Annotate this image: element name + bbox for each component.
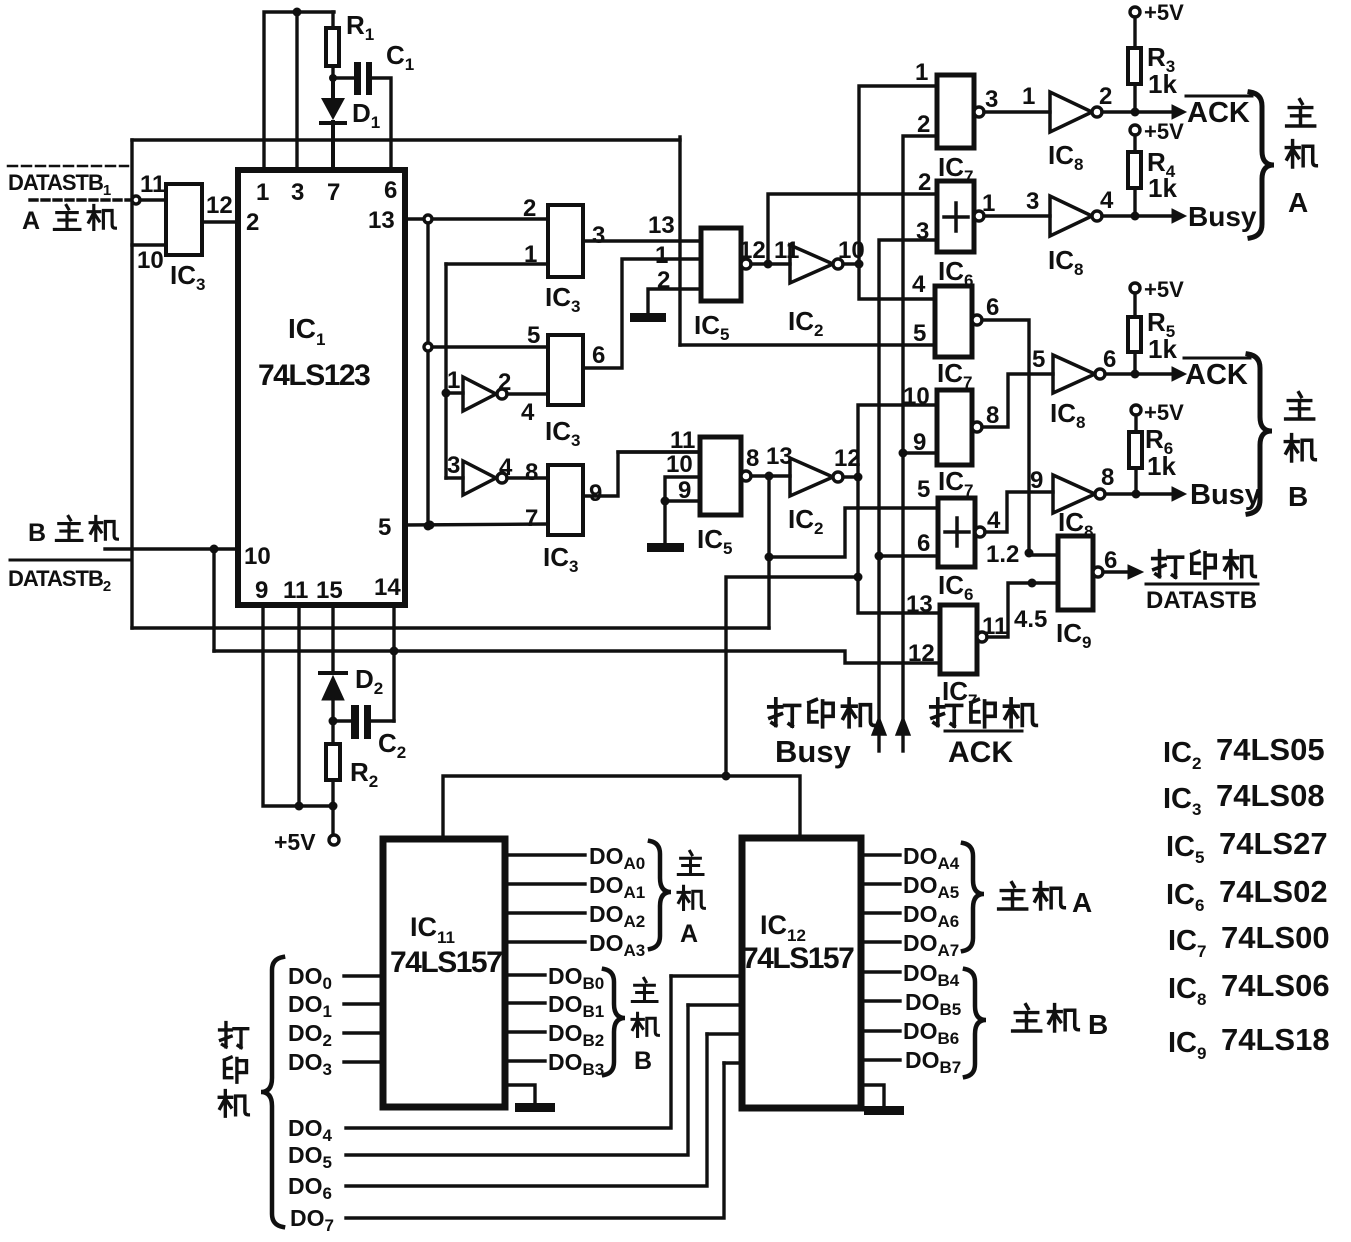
svg-text:5: 5	[913, 320, 926, 347]
svg-text:13: 13	[906, 591, 933, 618]
labels DO0-DO3	[288, 963, 332, 1079]
resistor R4 pullup	[1128, 125, 1141, 216]
wire y628 A-net long	[132, 626, 769, 629]
wire DO5 line	[346, 1005, 688, 1155]
inverter IC2 a	[790, 245, 859, 283]
svg-text:3: 3	[291, 179, 304, 206]
gate IC6 a nor	[937, 181, 1050, 252]
inverter IC8 a	[1050, 92, 1133, 132]
gate IC3 c	[548, 335, 583, 405]
pin labels IC8b	[1026, 187, 1114, 215]
label +5V R6	[1144, 400, 1184, 425]
label IC1	[288, 313, 325, 349]
inverter IC2 gate 1-2	[446, 377, 548, 411]
svg-text:2: 2	[917, 111, 930, 138]
svg-text:A: A	[1072, 887, 1092, 918]
pin labels IC1 top	[256, 177, 397, 206]
node select split	[722, 772, 731, 781]
label D1	[352, 98, 380, 132]
label IC11	[410, 912, 455, 947]
legend IC7	[1168, 920, 1330, 961]
gate IC3 strobe-A	[166, 184, 202, 255]
svg-text:11: 11	[283, 577, 308, 604]
svg-text:7: 7	[525, 505, 538, 532]
wire top +5V rail	[264, 12, 334, 170]
svg-text:5: 5	[378, 514, 391, 541]
legend IC2	[1163, 732, 1325, 773]
wire IC1 pin15 down	[331, 605, 334, 672]
pin labels IC6b	[917, 476, 1001, 557]
svg-text:2: 2	[657, 267, 670, 294]
wire IC12 outputs B4-B7	[861, 972, 900, 1060]
wire IC5a pin2 ground stub	[648, 289, 701, 313]
svg-text:1: 1	[1022, 83, 1035, 110]
label ACK A	[1186, 96, 1252, 129]
svg-text:6: 6	[917, 530, 930, 557]
node bus B select tap	[854, 573, 863, 582]
svg-text:4: 4	[499, 454, 513, 481]
wire IC11 inputs DO0-DO3	[344, 976, 383, 1062]
svg-text:74LS08: 74LS08	[1216, 778, 1325, 813]
legend IC3	[1163, 778, 1325, 819]
pin labels inverter 1-2	[447, 367, 535, 426]
label IC2 a	[788, 306, 823, 340]
svg-text:9: 9	[1030, 467, 1043, 494]
node ACK-B pullup	[1131, 370, 1140, 379]
svg-text:2: 2	[918, 169, 931, 196]
label IC8 b	[1048, 245, 1083, 279]
node IC9 pin12	[1025, 549, 1034, 558]
svg-text:74LS157: 74LS157	[390, 946, 502, 979]
svg-text:9: 9	[589, 480, 602, 507]
resistor R5 pullup	[1128, 283, 1141, 374]
pin labels IC3b	[523, 195, 605, 268]
pin 10 IC1	[244, 543, 271, 570]
label +5V R3	[1144, 0, 1184, 25]
legend IC5	[1166, 826, 1328, 867]
svg-text:1: 1	[256, 179, 269, 206]
capacitor C2	[333, 705, 394, 739]
label DATASTB2	[8, 560, 130, 595]
svg-text:11: 11	[140, 171, 165, 198]
label printer ACK mid	[931, 699, 1037, 769]
labels DOA4-A7	[903, 843, 960, 960]
label Busy B	[1190, 479, 1261, 511]
wire select line to muxes	[443, 577, 858, 839]
label 74LS157 IC12	[742, 942, 854, 975]
svg-text:B: B	[634, 1047, 652, 1075]
node Busy-B pullup	[1132, 490, 1141, 499]
op IC12 74LS157 box	[742, 838, 861, 1108]
svg-text:9: 9	[255, 577, 268, 604]
pin labels IC3c	[527, 322, 605, 369]
pin labels inverter 3-4	[447, 452, 538, 486]
diode D2	[320, 673, 346, 721]
svg-text:3: 3	[592, 222, 605, 249]
label IC8 d	[1058, 507, 1093, 541]
svg-text:12: 12	[739, 237, 766, 264]
label IC5 b	[697, 524, 732, 558]
brace host B IC12	[965, 969, 986, 1077]
op IC1 74LS123 box	[238, 170, 405, 605]
gate IC5 b 74LS27	[700, 437, 790, 515]
wire IC5b pin11 input	[618, 450, 700, 453]
wire +5V stub	[329, 806, 339, 845]
node IC2b input	[765, 472, 774, 481]
label printer Busy	[769, 699, 875, 769]
svg-text:5: 5	[527, 322, 540, 349]
arrow Busy up	[872, 717, 886, 751]
gate IC5 a 74LS27	[701, 228, 741, 301]
svg-text:11: 11	[774, 237, 799, 264]
svg-text:74LS00: 74LS00	[1221, 920, 1330, 955]
node D2 C2 R2	[329, 717, 338, 726]
svg-text:10: 10	[666, 451, 693, 478]
label IC12	[760, 910, 806, 945]
svg-text:+5V: +5V	[1144, 119, 1184, 144]
label IC6 b	[938, 570, 973, 604]
label IC8 c	[1050, 398, 1085, 432]
svg-text:4: 4	[912, 271, 926, 298]
ground IC5b	[647, 543, 684, 552]
svg-text:1: 1	[915, 59, 928, 86]
wire left vertical A-net	[130, 140, 133, 628]
ground IC5a	[630, 313, 666, 322]
labels DOB4-B7	[903, 960, 961, 1077]
svg-text:7: 7	[327, 179, 340, 206]
svg-text:1.2: 1.2	[986, 541, 1019, 568]
pin labels IC3d	[525, 480, 602, 532]
svg-text:1k: 1k	[1147, 451, 1176, 481]
svg-text:15: 15	[316, 577, 343, 604]
wire IC3b pin1 input	[446, 262, 548, 265]
node Busy pin6	[875, 552, 939, 561]
wire IC12 inputs risers	[671, 976, 742, 1063]
wire to IC6b pin5	[769, 508, 938, 557]
node IC9 pin45	[1028, 579, 1037, 588]
svg-text:8: 8	[746, 445, 759, 472]
label IC7 b	[937, 358, 972, 392]
svg-text:+5V: +5V	[1144, 400, 1184, 425]
node ACK pin9	[899, 449, 936, 458]
inverter IC8 c	[1053, 355, 1133, 393]
pin 10 IC3a	[137, 247, 164, 274]
gate IC9 nand	[1058, 536, 1103, 610]
svg-text:74LS06: 74LS06	[1221, 968, 1330, 1003]
pin 5 IC1	[378, 514, 391, 541]
gate IC5a output node	[741, 194, 937, 269]
label IC7 c	[938, 466, 973, 500]
wire IC3 pin10	[132, 243, 166, 246]
resistor R6 pullup	[1129, 405, 1142, 494]
wire IC1 pin9 down	[263, 605, 333, 806]
pin labels IC7a	[915, 59, 998, 138]
svg-text:1k: 1k	[1148, 334, 1177, 364]
svg-text:12: 12	[834, 445, 861, 472]
wire ACK bus vertical	[903, 136, 937, 720]
svg-text:8: 8	[1101, 464, 1114, 491]
pin labels IC1 bottom	[255, 574, 401, 604]
wire DO4 line	[346, 976, 671, 1128]
wire bus B strobe	[858, 405, 940, 613]
svg-text:3: 3	[916, 218, 929, 245]
svg-text:2: 2	[246, 209, 259, 236]
node pin11 +5V	[295, 802, 304, 811]
label IC3 c	[545, 416, 580, 450]
svg-text:1k: 1k	[1148, 173, 1177, 203]
label R4 value	[1147, 147, 1177, 203]
svg-text:9: 9	[913, 429, 926, 456]
node bus A	[855, 260, 864, 269]
label A-host	[22, 205, 115, 235]
label IC3 d	[543, 542, 578, 576]
svg-text:+5V: +5V	[1144, 277, 1184, 302]
wire IC1 pin11 down	[297, 605, 300, 806]
labels DOA0-A3	[589, 843, 645, 960]
label host A right	[1286, 100, 1316, 218]
pin labels IC9	[986, 541, 1117, 633]
svg-text:4: 4	[1100, 187, 1114, 214]
label IC6 a	[938, 256, 973, 290]
svg-text:6: 6	[986, 294, 999, 321]
label +5V R4	[1144, 119, 1184, 144]
pin 12 IC3a	[206, 192, 233, 219]
pin labels IC7b	[912, 271, 999, 347]
label ACK B	[1184, 358, 1250, 391]
wire y345 to IC7b pin5	[680, 343, 935, 346]
svg-text:DATASTB2: DATASTB2	[8, 566, 111, 595]
wire bus A strobe	[859, 86, 937, 299]
gate IC7 d	[940, 583, 1058, 674]
brace host A IC11	[650, 841, 671, 949]
inverter IC2 b	[790, 458, 858, 496]
pin labels IC2a	[739, 237, 865, 264]
label host A IC12	[999, 883, 1093, 918]
pin labels IC7c	[903, 383, 999, 456]
label R6 value	[1145, 424, 1176, 481]
svg-text:12: 12	[908, 640, 935, 667]
svg-text:Busy: Busy	[1188, 201, 1257, 232]
svg-text:3: 3	[447, 452, 460, 479]
svg-text:6: 6	[1103, 346, 1116, 373]
label R5 value	[1147, 307, 1177, 364]
inverter IC8 d	[1053, 475, 1133, 513]
gate IC3 b	[548, 205, 583, 277]
resistor R1	[326, 12, 339, 78]
inverter IC8 b	[1050, 196, 1133, 236]
pin 13 IC1	[368, 207, 395, 234]
label IC8 a	[1048, 140, 1083, 174]
svg-text:Busy: Busy	[775, 734, 852, 769]
svg-text:12: 12	[206, 192, 233, 219]
label B-host	[28, 516, 117, 547]
legend IC8	[1168, 968, 1330, 1009]
gate IC7 b	[935, 286, 1058, 555]
node R1-D1-C1	[329, 74, 337, 82]
svg-text:6: 6	[592, 342, 605, 369]
wire IC3c out pin6 feedback	[583, 259, 701, 368]
svg-text:11: 11	[982, 613, 1007, 640]
label +5V R5	[1144, 277, 1184, 302]
node inverter1 input	[442, 389, 451, 398]
svg-text:13: 13	[368, 207, 395, 234]
svg-text:74LS05: 74LS05	[1216, 732, 1325, 767]
svg-text:DATASTB: DATASTB	[1146, 587, 1257, 614]
wire IC3b out pin3 to IC5a pin13	[583, 239, 701, 242]
label 74LS123	[258, 359, 370, 392]
label host A IC11	[678, 851, 704, 948]
label D2	[355, 664, 383, 698]
wire long horizontal A-net top	[132, 138, 680, 141]
brace printer left	[261, 957, 283, 1227]
label 74LS157 IC11	[390, 946, 502, 979]
ground IC12	[861, 1085, 904, 1115]
svg-text:B: B	[28, 519, 46, 547]
svg-text:ACK: ACK	[1185, 359, 1248, 391]
pin labels IC2b	[746, 443, 861, 472]
node feedback tap	[765, 553, 774, 562]
gate IC3 d	[548, 465, 583, 535]
node pin5 junction	[426, 521, 435, 530]
svg-text:4: 4	[987, 507, 1001, 534]
svg-text:+5V: +5V	[274, 829, 316, 855]
diode D1	[321, 78, 345, 170]
arrow printer DATASTB out	[1103, 565, 1143, 579]
label +5V bottom	[274, 829, 316, 855]
label host B IC11	[632, 978, 658, 1075]
legend IC9	[1168, 1022, 1330, 1063]
svg-text:74LS18: 74LS18	[1221, 1022, 1330, 1057]
pin labels IC6a	[916, 169, 995, 245]
svg-text:4.5: 4.5	[1014, 606, 1047, 633]
pin labels IC8a	[1022, 83, 1112, 110]
ground IC11	[505, 1085, 555, 1112]
label C2	[378, 728, 406, 762]
brace host B IC11	[604, 969, 625, 1075]
pin labels IC7d	[906, 591, 1007, 667]
svg-text:10: 10	[903, 383, 930, 410]
label printer vertical	[219, 1023, 248, 1117]
inverter IC2 gate 3-4	[446, 461, 548, 495]
brace host B right	[1248, 354, 1272, 514]
node IC5b gnd tie	[661, 497, 670, 506]
svg-text:13: 13	[766, 443, 793, 470]
op IC11 74LS157 box	[383, 839, 505, 1107]
svg-text:1: 1	[524, 241, 537, 268]
label DATASTB1	[8, 166, 128, 199]
brace host A right	[1250, 92, 1274, 238]
svg-text:1: 1	[982, 190, 995, 217]
svg-text:Busy: Busy	[1190, 479, 1261, 511]
svg-text:10: 10	[244, 543, 271, 570]
label R1	[346, 10, 374, 44]
pin 11 IC3a	[140, 171, 165, 198]
wire x680 vertical A-net	[678, 137, 681, 345]
wire IC12 outputs A4-A7	[861, 855, 900, 942]
node B-DATASTB	[210, 545, 219, 554]
svg-text:A: A	[22, 207, 40, 235]
svg-text:ACK: ACK	[948, 736, 1013, 769]
wire IC3 pin12 to IC1 pin2	[202, 220, 238, 223]
pin labels IC8d	[1030, 464, 1114, 494]
svg-text:74LS27: 74LS27	[1219, 826, 1328, 861]
arrow Busy-B out	[1136, 487, 1186, 501]
arrow ACK up	[896, 717, 910, 751]
label IC7 a	[938, 152, 973, 186]
svg-text:74LS123: 74LS123	[258, 359, 370, 392]
arrow ACK-B out	[1135, 367, 1186, 381]
svg-text:8: 8	[525, 459, 538, 486]
label IC9	[1056, 618, 1091, 652]
svg-text:6: 6	[384, 177, 397, 204]
gate IC7 a	[937, 75, 1050, 148]
wire IC1 pin13 out	[405, 215, 548, 223]
wire Busy bus vertical	[879, 240, 937, 720]
label host B right	[1285, 393, 1315, 512]
pin 2 IC1	[246, 209, 259, 236]
svg-text:3: 3	[1026, 188, 1039, 215]
svg-text:+5V: +5V	[1144, 0, 1184, 25]
svg-text:11: 11	[670, 427, 695, 454]
wire y651 B-net long	[214, 651, 940, 663]
wire B-DATASTB input	[105, 547, 238, 550]
svg-text:5: 5	[1032, 346, 1045, 373]
svg-text:8: 8	[986, 402, 999, 429]
svg-text:74LS02: 74LS02	[1219, 874, 1328, 909]
svg-text:A: A	[1288, 187, 1308, 218]
wire B vertical x214	[212, 549, 215, 651]
wire DO7 line	[346, 1063, 724, 1218]
legend IC6	[1166, 874, 1328, 915]
node x428 bottom	[424, 522, 433, 531]
svg-text:B: B	[1288, 481, 1308, 512]
wire IC3b pin5 input	[432, 345, 548, 348]
brace host A IC12	[963, 843, 984, 951]
svg-text:1: 1	[447, 367, 460, 394]
svg-text:1: 1	[655, 242, 668, 269]
labels DOB0-B3	[548, 963, 604, 1079]
svg-text:10: 10	[838, 237, 865, 264]
wire IC5b pin10 pin9 tie	[665, 477, 700, 543]
wire IC1 pin14 down	[392, 605, 395, 721]
pin 13 IC5a	[648, 212, 675, 239]
labels DO4-DO7	[288, 1115, 334, 1235]
wire IC11 outputs A0-A3	[505, 855, 585, 942]
label IC3 a	[170, 260, 205, 294]
resistor R3 pullup	[1128, 7, 1141, 112]
svg-text:10: 10	[137, 247, 164, 274]
arrow Busy-A out	[1135, 209, 1186, 223]
label IC2 b	[788, 504, 823, 538]
resistor R2	[326, 721, 340, 806]
svg-text:2: 2	[523, 195, 536, 222]
svg-text:2: 2	[1099, 83, 1112, 110]
wire DATASTB1 dashed input	[30, 196, 166, 204]
svg-text:4: 4	[521, 399, 535, 426]
wire DO6 line	[346, 1034, 707, 1186]
gate IC7 c	[937, 374, 1053, 465]
label R2	[350, 757, 378, 791]
wire vertical bus x446	[444, 264, 447, 478]
svg-text:3: 3	[985, 86, 998, 113]
node bus B from IC2b	[854, 473, 863, 482]
svg-text:2: 2	[498, 369, 511, 396]
node R2 +5V	[329, 802, 338, 811]
label IC3 b	[545, 282, 580, 316]
svg-text:74LS157: 74LS157	[742, 942, 854, 975]
arrow ACK-A out	[1135, 105, 1186, 119]
capacitor C1	[333, 62, 391, 170]
